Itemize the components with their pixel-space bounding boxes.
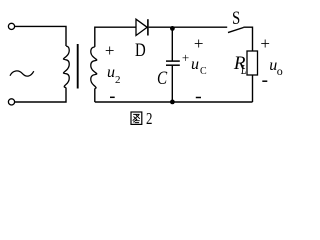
wire diode to switch [149,26,228,28]
switch S right contact [243,27,252,51]
label u2 [107,65,115,81]
switch S blade [228,28,244,33]
wire primary bottom [15,88,66,103]
AC source tilde [10,71,34,76]
transformer primary winding [63,46,69,88]
label D [135,41,146,60]
label u2 minus [110,96,115,98]
transformer secondary winding [91,47,97,89]
caption number 2 [146,111,152,128]
caption 图 glyph box [131,112,142,124]
transformer core [77,44,79,89]
wire resistor bottom [252,75,254,102]
capacitor C top plate [166,60,180,62]
terminal top-left [8,23,14,29]
label uC plus [194,35,204,52]
wire capacitor branch lower [171,66,173,102]
capacitor polarity plus [182,51,189,64]
label uo [269,58,277,74]
node dot bottom [170,100,175,105]
label C [157,69,167,88]
terminal bottom-left [8,99,14,105]
resistor RL box [247,51,258,75]
label u2 plus [105,42,115,59]
node dot top (capacitor junction) [170,26,175,31]
wire primary top [15,26,66,46]
label uC [191,57,199,73]
wire secondary bottom stub [94,88,96,102]
diode D triangle [136,19,147,35]
diode D cathode bar [147,19,149,35]
label uC minus [196,97,201,99]
label S [232,9,240,28]
capacitor C bottom plate [166,64,180,66]
label uo minus [262,80,267,82]
label RL [234,54,246,73]
wire capacitor branch upper [171,28,173,61]
wire secondary top stub [95,27,136,47]
label uo plus [260,35,270,52]
bottom rail [95,101,253,103]
